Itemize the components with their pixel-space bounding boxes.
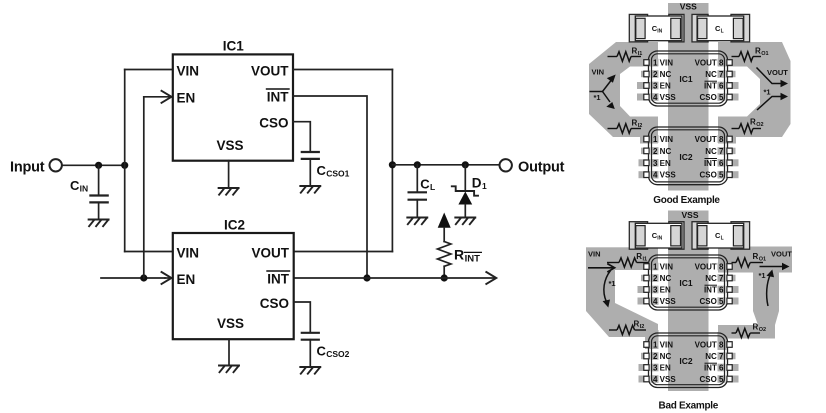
svg-text:CSO2: CSO2 bbox=[326, 349, 349, 359]
svg-text:3 EN: 3 EN bbox=[653, 159, 671, 168]
svg-text:NC 7: NC 7 bbox=[705, 274, 724, 283]
wire CSO1 bbox=[293, 122, 310, 152]
ground below CCSO1 bbox=[300, 186, 320, 193]
svg-text:L: L bbox=[721, 236, 724, 242]
svg-text:2 NC: 2 NC bbox=[653, 352, 671, 361]
svg-text:IN: IN bbox=[80, 184, 89, 194]
svg-text:R: R bbox=[753, 322, 759, 331]
svg-text:VIN: VIN bbox=[177, 245, 200, 260]
svg-text:R: R bbox=[755, 46, 761, 55]
node junction CL bbox=[414, 161, 421, 168]
svg-text:4 VSS: 4 VSS bbox=[653, 375, 676, 384]
svg-text:C: C bbox=[420, 176, 430, 191]
svg-text:1: 1 bbox=[482, 181, 487, 191]
svg-text:Good Example: Good Example bbox=[653, 195, 720, 206]
svg-text:4 VSS: 4 VSS bbox=[653, 93, 676, 102]
svg-text:I1: I1 bbox=[643, 257, 648, 263]
svg-text:1 VIN: 1 VIN bbox=[653, 263, 673, 272]
svg-text:2 NC: 2 NC bbox=[653, 70, 671, 79]
trace merge to IC2 pin8 (bad) bbox=[718, 332, 727, 350]
svg-text:INT: INT bbox=[267, 89, 290, 104]
ground below CIN bbox=[89, 220, 109, 227]
node junction VOUT to output rail bbox=[389, 161, 396, 168]
svg-text:I1: I1 bbox=[638, 51, 643, 57]
svg-text:VOUT 8: VOUT 8 bbox=[695, 341, 724, 350]
SCHEMATIC-LEFT bbox=[10, 39, 565, 374]
svg-text:VOUT 8: VOUT 8 bbox=[695, 59, 724, 68]
svg-text:O1: O1 bbox=[759, 257, 766, 263]
svg-text:L: L bbox=[721, 28, 724, 34]
svg-text:NC 7: NC 7 bbox=[705, 70, 724, 79]
IC U-bad-2 package bbox=[639, 333, 739, 388]
svg-text:1 VIN: 1 VIN bbox=[653, 341, 673, 350]
svg-text:VIN: VIN bbox=[592, 67, 605, 76]
resistor RO1 (good) bbox=[732, 46, 769, 61]
net VIN copper pour left (good) bbox=[589, 42, 658, 144]
svg-text:*1: *1 bbox=[594, 93, 601, 102]
node VOUT arrows (good) bbox=[757, 68, 789, 111]
svg-text:INT: INT bbox=[465, 253, 481, 264]
svg-text:CSO: CSO bbox=[260, 296, 289, 311]
ground below D1 bbox=[455, 218, 475, 225]
net VOUT copper pour right (good) bbox=[718, 42, 791, 144]
svg-text:CSO 5: CSO 5 bbox=[699, 93, 724, 102]
svg-text:Output: Output bbox=[518, 159, 565, 175]
svg-text:VOUT: VOUT bbox=[251, 63, 289, 78]
trace merge to IC2 pin1 (bad) bbox=[645, 330, 659, 349]
svg-text:IN: IN bbox=[657, 28, 662, 34]
IC U-bad-1 package bbox=[638, 255, 739, 310]
resistor RI1 (good) bbox=[608, 46, 643, 61]
net VSS copper strip (good) bbox=[668, 3, 709, 191]
svg-text:4 VSS: 4 VSS bbox=[653, 297, 676, 306]
svg-text:2 NC: 2 NC bbox=[653, 274, 671, 283]
svg-text:*1: *1 bbox=[609, 279, 616, 288]
svg-text:CSO 5: CSO 5 bbox=[699, 171, 724, 180]
op-amp IC1 box bbox=[173, 39, 293, 161]
svg-text:INT 6: INT 6 bbox=[704, 82, 724, 91]
wire EN1 into IC1 with arrow bbox=[144, 91, 172, 103]
wire EN input line bbox=[101, 277, 165, 279]
svg-text:3 EN: 3 EN bbox=[653, 82, 671, 91]
svg-text:VIN: VIN bbox=[177, 63, 200, 78]
wire VOUT1 bbox=[293, 69, 392, 71]
resistor RO2 (good) bbox=[732, 117, 764, 133]
node junction INT1/INT2 bbox=[363, 274, 370, 281]
node VIN star arrows (good) bbox=[590, 67, 616, 109]
flow arrow up right (bad) bbox=[767, 270, 775, 307]
svg-text:Input: Input bbox=[10, 160, 45, 176]
svg-text:IC1: IC1 bbox=[223, 39, 245, 54]
svg-text:CSO 5: CSO 5 bbox=[699, 375, 724, 384]
svg-text:NC 7: NC 7 bbox=[705, 147, 724, 156]
svg-text:O2: O2 bbox=[759, 327, 766, 333]
svg-text:CSO 5: CSO 5 bbox=[699, 297, 724, 306]
svg-text:R: R bbox=[636, 252, 642, 261]
svg-text:1 VIN: 1 VIN bbox=[653, 135, 673, 144]
wire CSO2 bbox=[294, 302, 311, 333]
svg-text:R: R bbox=[632, 118, 638, 127]
resistor RI2 (bad) bbox=[609, 319, 646, 334]
net VOUT trace band and down-trace (bad) bbox=[718, 247, 792, 326]
svg-text:3 EN: 3 EN bbox=[653, 286, 671, 295]
capacitor CIN bbox=[70, 165, 108, 219]
svg-text:I2: I2 bbox=[638, 123, 643, 129]
svg-text:VSS: VSS bbox=[680, 2, 697, 12]
wire VSS2 bbox=[228, 339, 230, 365]
wire INT2 output with arrow bbox=[294, 272, 497, 284]
svg-text:*1: *1 bbox=[764, 88, 771, 97]
svg-text:D: D bbox=[472, 175, 482, 190]
svg-text:VOUT: VOUT bbox=[771, 250, 792, 259]
svg-text:INT: INT bbox=[267, 271, 290, 286]
svg-text:R: R bbox=[454, 247, 464, 263]
svg-text:CSO: CSO bbox=[259, 116, 288, 131]
capacitor CL pads and body (good) bbox=[692, 14, 750, 42]
wire input rail bbox=[62, 164, 125, 166]
net VSS copper strip (bad) bbox=[668, 211, 709, 392]
node junction RINT bbox=[441, 274, 448, 281]
IC U-good-2 package bbox=[639, 127, 739, 185]
svg-text:IN: IN bbox=[657, 236, 662, 242]
svg-text:O2: O2 bbox=[756, 122, 763, 128]
svg-text:IC1: IC1 bbox=[679, 278, 693, 288]
LAYOUT-RIGHT bbox=[586, 2, 792, 412]
svg-text:INT 6: INT 6 bbox=[704, 286, 724, 295]
net VOUT lower band to IC2 pin8 (bad) bbox=[718, 325, 775, 339]
svg-text:1 VIN: 1 VIN bbox=[653, 59, 673, 68]
svg-text:O1: O1 bbox=[761, 51, 768, 57]
svg-text:R: R bbox=[750, 117, 756, 126]
ground below CCSO2 bbox=[300, 367, 320, 374]
svg-text:IC2: IC2 bbox=[679, 152, 693, 162]
capacitor CIN pads and body (bad) bbox=[629, 222, 684, 250]
svg-text:I2: I2 bbox=[640, 324, 645, 330]
svg-text:R: R bbox=[634, 319, 640, 328]
svg-text:VSS: VSS bbox=[217, 316, 244, 331]
node Output terminal bbox=[500, 159, 565, 175]
svg-text:R: R bbox=[632, 46, 638, 55]
node VIN entry arrow (bad) bbox=[588, 264, 615, 272]
node junction EN split bbox=[140, 274, 147, 281]
wire INT1 bbox=[293, 96, 367, 278]
wire output rail bbox=[392, 164, 499, 166]
svg-text:IC2: IC2 bbox=[679, 356, 693, 366]
capacitor CCSO1 bbox=[302, 152, 350, 186]
capacitor CCSO2 bbox=[302, 333, 350, 367]
net VIN trace top band (bad) bbox=[586, 247, 658, 270]
svg-text:VIN: VIN bbox=[588, 250, 601, 259]
wire VOUT vertical column bbox=[391, 70, 393, 252]
svg-text:NC 7: NC 7 bbox=[705, 352, 724, 361]
resistor RO2 (bad) bbox=[732, 322, 767, 337]
svg-text:4 VSS: 4 VSS bbox=[653, 171, 676, 180]
node junction at VIN column bbox=[121, 162, 128, 169]
svg-text:VOUT 8: VOUT 8 bbox=[695, 135, 724, 144]
capacitor CL bbox=[409, 165, 436, 218]
wire EN vertical to IC1 bbox=[143, 97, 145, 278]
svg-text:L: L bbox=[430, 182, 435, 192]
op-amp IC2 box bbox=[173, 217, 294, 339]
svg-text:VSS: VSS bbox=[216, 138, 243, 153]
svg-text:INT 6: INT 6 bbox=[704, 159, 724, 168]
svg-text:Bad Example: Bad Example bbox=[659, 401, 719, 412]
resistor RI1 (bad) bbox=[607, 252, 648, 267]
svg-text:*1: *1 bbox=[759, 271, 766, 280]
resistor RINT with pull-up arrow bbox=[438, 213, 482, 279]
wire VIN1 to IC1 bbox=[125, 69, 173, 71]
IC U-good-1 package bbox=[637, 51, 739, 106]
svg-text:3 EN: 3 EN bbox=[653, 364, 671, 373]
wire VOUT2 bbox=[294, 251, 393, 253]
svg-text:IC2: IC2 bbox=[224, 217, 245, 232]
net VIN daisy-chain trace down to IC2 (bad) bbox=[586, 270, 658, 337]
wire VIN vertical column bbox=[124, 70, 126, 252]
svg-text:VOUT: VOUT bbox=[251, 245, 289, 260]
svg-text:EN: EN bbox=[177, 91, 196, 106]
wire VSS1 bbox=[228, 161, 230, 188]
svg-text:C: C bbox=[317, 163, 327, 178]
node junction at CIN bbox=[95, 162, 102, 169]
node Input terminal bbox=[10, 159, 62, 175]
wire VIN2 to IC2 bbox=[125, 251, 173, 253]
node junction D1 bbox=[462, 161, 469, 168]
svg-text:2 NC: 2 NC bbox=[653, 147, 671, 156]
capacitor CL pads and body (bad) bbox=[692, 222, 750, 250]
capacitor CIN pads and body (good) bbox=[629, 14, 684, 42]
svg-text:VOUT 8: VOUT 8 bbox=[695, 263, 724, 272]
svg-text:EN: EN bbox=[177, 272, 196, 287]
ground below CL bbox=[407, 218, 427, 225]
svg-text:CSO1: CSO1 bbox=[326, 168, 349, 178]
svg-text:VSS: VSS bbox=[681, 210, 698, 220]
ground IC2 VSS bbox=[219, 366, 239, 373]
resistor RI2 (good) bbox=[608, 118, 643, 133]
svg-text:VOUT: VOUT bbox=[767, 68, 788, 77]
svg-text:R: R bbox=[753, 252, 759, 261]
svg-text:IC1: IC1 bbox=[679, 74, 693, 84]
flow arrow down left (bad) bbox=[603, 271, 611, 308]
ground IC1 VSS bbox=[219, 188, 239, 195]
svg-text:INT 6: INT 6 bbox=[704, 364, 724, 373]
wire EN2 into IC2 with arrow bbox=[162, 272, 172, 284]
svg-text:C: C bbox=[317, 344, 327, 359]
resistor RO1 (bad) bbox=[732, 252, 767, 267]
diode D1 zener bbox=[452, 165, 487, 218]
svg-text:C: C bbox=[70, 178, 80, 193]
node VOUT exit arrow (bad) bbox=[760, 263, 790, 271]
